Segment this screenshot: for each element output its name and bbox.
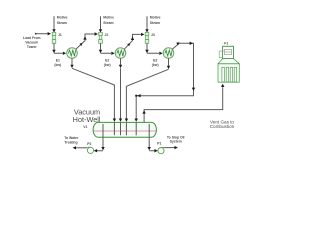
wire hot well vent to F1 bbox=[144, 87, 223, 122]
svg-text:Load From: Load From bbox=[23, 36, 41, 40]
svg-text:Motive: Motive bbox=[103, 15, 114, 19]
vessel V1 hot well bbox=[93, 122, 156, 137]
svg-text:Hot-Well: Hot-Well bbox=[73, 115, 101, 124]
wire E3 vapour to hot well bbox=[136, 43, 193, 118]
wire E1 condensate to hot well bbox=[72, 58, 114, 118]
svg-text:System: System bbox=[170, 139, 182, 143]
wire P2 discharge to water treating bbox=[76, 147, 87, 149]
wire E1 vapour to J2 bbox=[76, 34, 95, 49]
svg-text:Motive: Motive bbox=[150, 15, 161, 19]
svg-text:P1: P1 bbox=[157, 141, 161, 145]
wire motive steam 3 line bbox=[146, 16, 148, 29]
wire drain to P2 bbox=[97, 124, 103, 151]
svg-text:Steam: Steam bbox=[103, 21, 113, 25]
ejector J3 bbox=[145, 32, 149, 43]
wire motive steam 2 line bbox=[100, 16, 102, 29]
pump P1 bbox=[158, 148, 164, 154]
wire motive steam 3 arrow bbox=[145, 29, 148, 32]
wire motive steam 1 arrow bbox=[52, 29, 55, 32]
pump P2 bbox=[87, 147, 93, 153]
wire J2 to E2 bbox=[101, 43, 112, 53]
wire E2 condensate to hot well bbox=[120, 58, 122, 118]
ejector J1 bbox=[52, 32, 56, 43]
combustion unit F1 bbox=[218, 59, 239, 83]
svg-text:Tower: Tower bbox=[27, 45, 37, 49]
svg-text:Vacuum: Vacuum bbox=[25, 40, 38, 44]
wire drain to P1 bbox=[149, 124, 154, 151]
svg-text:F1: F1 bbox=[224, 41, 228, 45]
svg-text:Motive: Motive bbox=[57, 15, 68, 19]
svg-text:J1: J1 bbox=[58, 33, 62, 37]
svg-text:Combustion: Combustion bbox=[210, 124, 235, 129]
svg-text:(kw): (kw) bbox=[152, 63, 159, 67]
wire J1 to E1 bbox=[54, 43, 63, 53]
condenser E1 bbox=[67, 48, 78, 59]
wire E3 condensate to hot well bbox=[126, 58, 168, 118]
wire inlet stubs inside vessel bbox=[114, 122, 136, 135]
svg-text:Steam: Steam bbox=[150, 21, 160, 25]
svg-text:(kw): (kw) bbox=[104, 63, 111, 67]
ejector J2 bbox=[99, 32, 103, 43]
condenser E2 bbox=[115, 48, 126, 59]
svg-text:Steam: Steam bbox=[57, 21, 67, 25]
wire P1 discharge to slop oil bbox=[164, 147, 174, 149]
svg-text:(kw): (kw) bbox=[54, 63, 61, 67]
wire J3 to E3 bbox=[147, 43, 159, 53]
wire motive steam 1 line bbox=[53, 16, 55, 29]
svg-text:Treating: Treating bbox=[64, 141, 77, 145]
wire motive steam 2 arrow bbox=[99, 29, 102, 32]
svg-text:J3: J3 bbox=[151, 33, 155, 37]
wire load from vacuum tower bbox=[35, 33, 37, 35]
wire E2 vapour to J3 bbox=[124, 34, 141, 49]
svg-text:V1: V1 bbox=[83, 125, 87, 129]
condenser E3 bbox=[163, 48, 174, 59]
svg-text:J2: J2 bbox=[105, 33, 109, 37]
node liquid level bbox=[94, 130, 156, 132]
svg-text:To Water: To Water bbox=[64, 136, 79, 140]
svg-text:P2: P2 bbox=[87, 142, 91, 146]
